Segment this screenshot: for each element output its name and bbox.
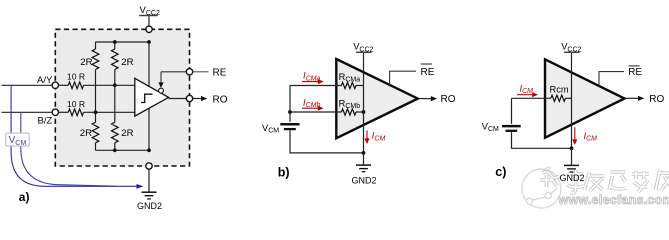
svg-text:www.elecfans.com: www.elecfans.com xyxy=(558,193,669,207)
wire B/Z to resistor xyxy=(58,111,68,113)
svg-text:RE: RE xyxy=(213,68,227,79)
svg-text:ICM: ICM xyxy=(520,83,534,95)
wire VCC2 drop xyxy=(148,42,150,150)
wire A/Y input line xyxy=(2,84,53,86)
resistor 10R upper xyxy=(68,82,83,89)
wire B/Z input line xyxy=(2,111,53,113)
watermark url xyxy=(558,193,669,207)
node VCM label box xyxy=(6,133,29,147)
battery VCM b xyxy=(262,123,300,135)
svg-text:2R: 2R xyxy=(121,128,133,139)
arrow RO b xyxy=(431,96,437,101)
svg-text:2R: 2R xyxy=(121,57,133,68)
svg-text:2R: 2R xyxy=(80,57,92,68)
power VCC2 c xyxy=(561,42,581,54)
wire RO output b xyxy=(418,98,432,100)
junction ground rail c xyxy=(570,146,574,150)
junction bottom rail right column xyxy=(113,148,117,152)
resistor RCMb xyxy=(341,109,356,115)
svg-text:VCM: VCM xyxy=(262,123,279,135)
wire bottom rail xyxy=(96,149,150,151)
svg-text:10 R: 10 R xyxy=(67,72,85,82)
wire top rail xyxy=(96,41,150,43)
wire input a xyxy=(290,85,341,87)
wire VCM blue sense line from A/Y xyxy=(11,85,137,186)
battery VCM c xyxy=(482,121,521,133)
wire left column middle xyxy=(95,70,97,123)
arrow enable down xyxy=(158,82,163,88)
svg-text:A/Y: A/Y xyxy=(37,75,53,86)
arrow ICM down red c xyxy=(572,127,597,145)
label RE b with overline xyxy=(421,64,435,78)
junction RCMb node xyxy=(362,110,366,114)
wire RE lead c xyxy=(599,72,624,87)
wire VCM left drop b xyxy=(289,86,291,122)
arrow ICMb red xyxy=(302,97,324,110)
power VCC2 b xyxy=(353,42,373,54)
node B/Z terminal xyxy=(52,109,58,115)
wire RCMa stub xyxy=(356,85,364,87)
resistor 2R top-left xyxy=(92,42,99,70)
node RO terminal xyxy=(186,95,192,101)
svg-text:VCM: VCM xyxy=(482,121,499,133)
wire input b xyxy=(290,111,341,113)
arrow RO right xyxy=(201,96,207,101)
arrow VCM blue xyxy=(137,184,144,189)
comparator U2 xyxy=(336,59,418,138)
label RE c with overline xyxy=(628,66,642,78)
wire VCM left drop c xyxy=(511,98,513,124)
watermark logo xyxy=(522,167,561,208)
svg-text:ICMa: ICMa xyxy=(303,71,320,83)
node GND2 terminal xyxy=(146,163,152,169)
svg-text:VCC2: VCC2 xyxy=(140,5,160,17)
svg-text:GND2: GND2 xyxy=(137,201,162,211)
wire RO lead xyxy=(193,98,202,100)
resistor Rcm xyxy=(551,95,566,101)
resistor RCMa xyxy=(341,82,356,88)
junction VCC2 top rail xyxy=(147,40,151,44)
svg-text:VCC2: VCC2 xyxy=(353,42,373,54)
junction top rail right column xyxy=(113,40,117,44)
junction VCM lower line b xyxy=(288,110,292,114)
ground GND2 c xyxy=(559,148,584,183)
svg-text:2R: 2R xyxy=(80,128,92,139)
comparator U1 xyxy=(135,78,169,116)
arrow ICMa red xyxy=(302,71,324,85)
svg-text:RO: RO xyxy=(213,94,228,105)
svg-text:ICMb: ICMb xyxy=(303,97,320,109)
resistor 10R lower xyxy=(68,109,83,116)
wire battery to rail b xyxy=(290,130,364,153)
node A/Y terminal xyxy=(52,82,58,88)
svg-text:a): a) xyxy=(19,190,30,204)
svg-text:GND2: GND2 xyxy=(559,173,584,183)
svg-text:c): c) xyxy=(495,165,506,179)
wire A/Y to resistor xyxy=(58,84,68,86)
svg-text:ICM: ICM xyxy=(584,131,598,143)
junction right column A/Y xyxy=(113,83,117,87)
wire lower resistor to comparator xyxy=(84,111,135,113)
wire RO output c xyxy=(625,97,639,99)
wire right column middle xyxy=(114,70,116,123)
IC dashed boundary box xyxy=(55,29,189,166)
resistor 2R top-right xyxy=(112,42,119,70)
ground GND2 b xyxy=(351,153,376,186)
svg-text:ICM: ICM xyxy=(372,131,386,143)
junction left column B/Z xyxy=(94,110,98,114)
junction VCC2 bottom rail xyxy=(147,148,151,152)
wire input c xyxy=(512,97,551,99)
svg-text:VCM: VCM xyxy=(9,135,27,147)
ground GND2 xyxy=(137,169,162,211)
wire VCM blue sense line from B/Z xyxy=(21,112,116,186)
svg-text:RO: RO xyxy=(441,94,456,105)
arrow RO c xyxy=(638,96,644,101)
svg-text:RO: RO xyxy=(649,94,664,105)
junction ground rail b xyxy=(362,151,366,155)
node RE terminal xyxy=(186,69,192,75)
wire VCC2-to-ground internal xyxy=(363,52,365,153)
svg-text:Rcm: Rcm xyxy=(550,84,569,94)
wire RE lead b xyxy=(390,71,416,85)
svg-text:10 R: 10 R xyxy=(67,99,85,109)
wire RE enable xyxy=(161,72,187,83)
enable bubble xyxy=(159,88,164,93)
hysteresis symbol xyxy=(141,94,153,102)
resistor 2R bottom-right xyxy=(112,122,119,150)
svg-text:VCC2: VCC2 xyxy=(561,42,581,54)
wire VCC2-to-ground internal c xyxy=(571,52,573,148)
svg-text:GND2: GND2 xyxy=(351,176,376,186)
wire RO output xyxy=(169,98,187,100)
wire Rcm stub xyxy=(565,97,571,99)
comparator U3 xyxy=(545,59,625,137)
svg-text:RE: RE xyxy=(628,67,642,78)
watermark glyph strokes xyxy=(540,170,669,193)
svg-text:B/Z: B/Z xyxy=(38,116,53,127)
svg-text:RE: RE xyxy=(421,67,435,78)
wire battery to rail c xyxy=(512,132,572,148)
wire upper resistor to comparator xyxy=(84,84,135,86)
arrow ICM down red b xyxy=(364,131,385,145)
arrow ICM red c xyxy=(517,83,538,97)
wire RE lead xyxy=(193,71,209,73)
node VCC2 terminal xyxy=(146,26,152,32)
svg-text:b): b) xyxy=(278,166,290,180)
resistor 2R bottom-left xyxy=(92,122,99,150)
wire RCMb stub xyxy=(356,111,364,113)
power VCC2 xyxy=(139,5,160,26)
